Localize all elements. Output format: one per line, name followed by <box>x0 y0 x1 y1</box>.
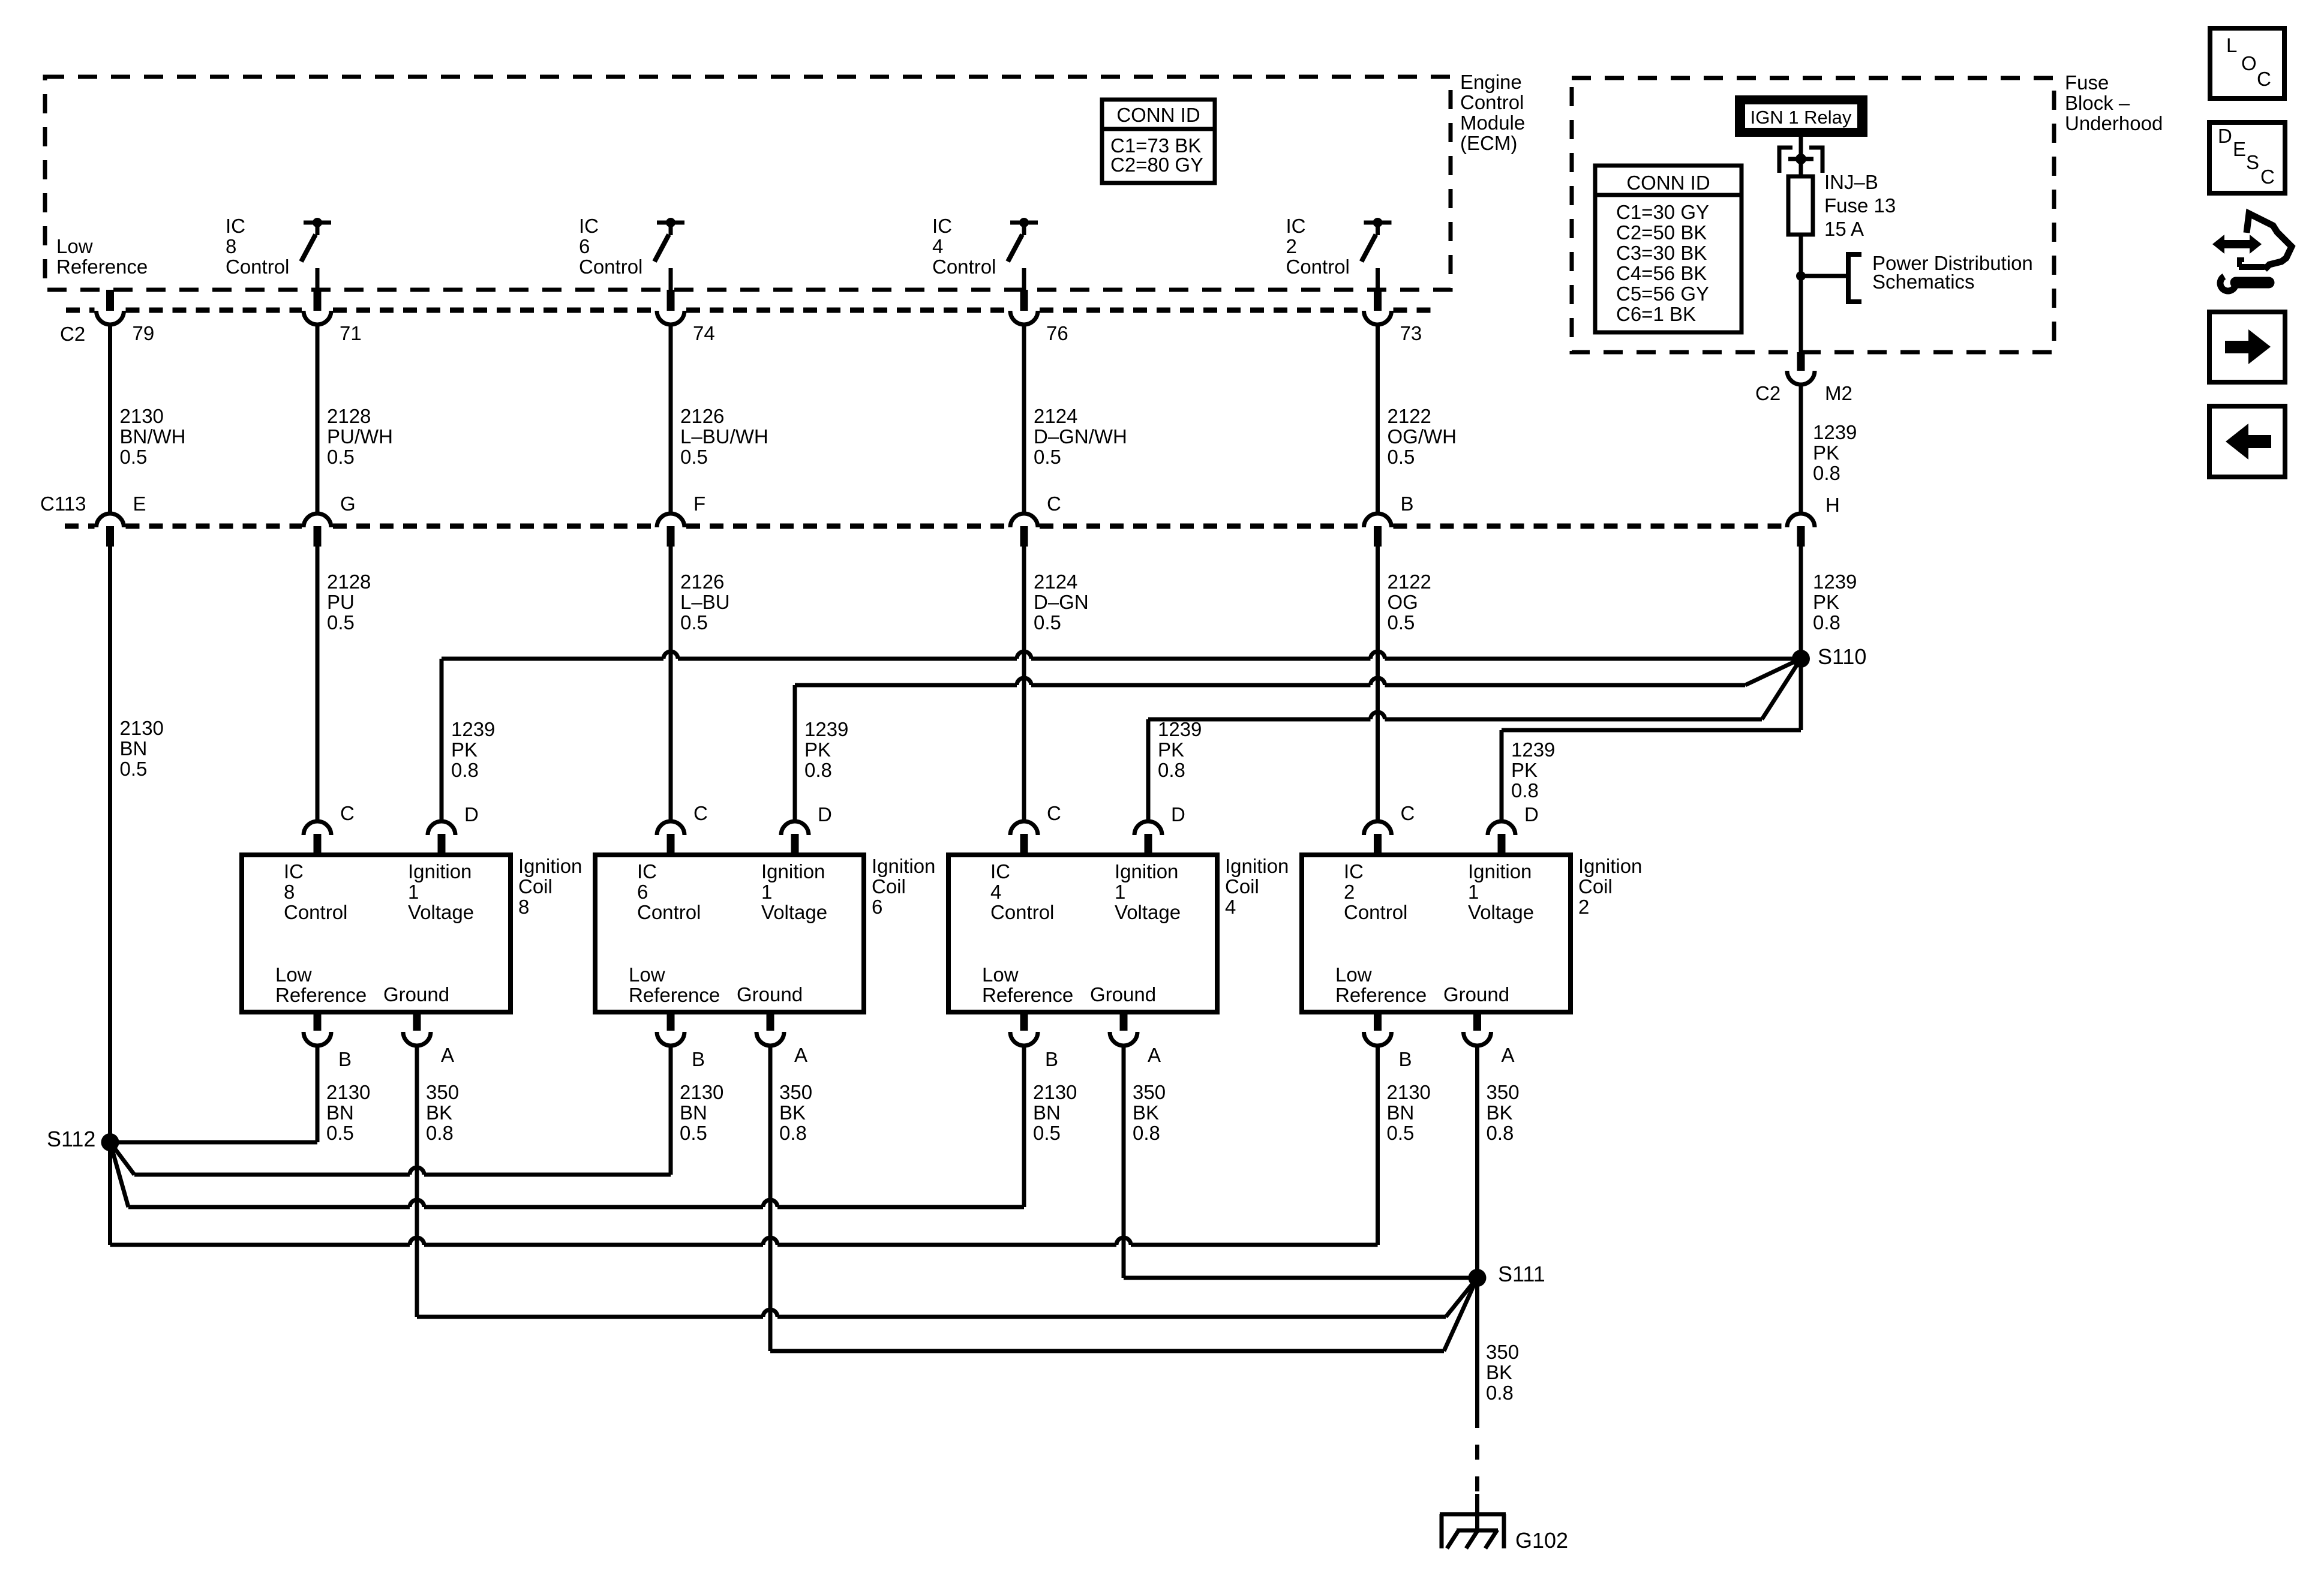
svg-text:350: 350 <box>1133 1081 1166 1103</box>
svg-text:1239: 1239 <box>1813 571 1857 593</box>
svg-text:Reference: Reference <box>1335 984 1427 1006</box>
svg-text:Ignition: Ignition <box>1225 855 1289 877</box>
svg-text:2130: 2130 <box>680 1081 723 1103</box>
switch IC 6 Control driver <box>657 221 684 225</box>
svg-text:1: 1 <box>761 881 772 903</box>
svg-text:0.5: 0.5 <box>1388 446 1415 468</box>
svg-text:1239: 1239 <box>451 718 495 740</box>
svg-text:Ignition: Ignition <box>1578 855 1642 877</box>
svg-text:2128: 2128 <box>327 571 371 593</box>
wire 350 BK coil 6 pin A to S111 <box>768 1046 773 1351</box>
svg-text:PU/WH: PU/WH <box>327 425 393 448</box>
svg-text:0.8: 0.8 <box>426 1122 454 1144</box>
svg-text:Control: Control <box>932 256 996 278</box>
svg-text:0.8: 0.8 <box>1487 1122 1514 1144</box>
svg-text:2130: 2130 <box>120 405 164 427</box>
svg-text:IC: IC <box>932 215 952 237</box>
svg-text:BN: BN <box>680 1101 707 1124</box>
svg-text:C2=50 BK: C2=50 BK <box>1616 221 1707 244</box>
wire 2130 BN coil 6 pin B to S112 <box>669 1046 673 1175</box>
svg-text:2: 2 <box>1286 235 1297 257</box>
svg-text:0.5: 0.5 <box>120 446 148 468</box>
svg-text:IC: IC <box>284 860 304 882</box>
connector ignition coil 2 pin D <box>1488 821 1515 835</box>
wire 2130 BN coil 2 pin B to S112 <box>1376 1046 1380 1245</box>
svg-text:8: 8 <box>226 235 236 257</box>
wire 2122 OG/WH from ECM pin 73 to C113 <box>1376 325 1380 514</box>
connector ECM C2 pin 76 (male stub and socket) <box>1020 290 1028 311</box>
svg-text:C: C <box>1047 802 1061 824</box>
svg-text:2122: 2122 <box>1388 405 1431 427</box>
svg-text:0.5: 0.5 <box>326 1122 354 1144</box>
connector ignition coil 4 pin D <box>1134 821 1162 835</box>
connector C113 pin H (socket and male stub) <box>1787 514 1815 527</box>
svg-text:CONN ID: CONN ID <box>1116 104 1200 126</box>
wire 350 BK coil 2 pin A through S111 <box>1475 1046 1479 1413</box>
connector ignition coil 6 pin A <box>767 1012 774 1031</box>
svg-text:OG/WH: OG/WH <box>1388 425 1457 448</box>
connector ignition coil 6 pin D <box>781 821 809 835</box>
svg-text:Low: Low <box>1335 963 1372 986</box>
ignition coil 6 box <box>595 855 864 1012</box>
svg-text:PU: PU <box>327 591 355 613</box>
svg-text:Control: Control <box>637 901 701 923</box>
svg-text:Coil: Coil <box>1578 875 1613 897</box>
svg-text:Engine: Engine <box>1460 71 1522 93</box>
svg-text:73: 73 <box>1400 322 1422 344</box>
svg-text:B: B <box>692 1048 705 1070</box>
svg-text:0.8: 0.8 <box>779 1122 807 1144</box>
svg-text:0.5: 0.5 <box>327 446 355 468</box>
svg-text:1239: 1239 <box>1158 718 1202 740</box>
svg-text:Fuse: Fuse <box>2065 71 2109 94</box>
fuse INJ-B Fuse 13 15 A symbol <box>1788 176 1813 235</box>
svg-text:Fuse 13: Fuse 13 <box>1824 194 1896 217</box>
splice S110 <box>1792 650 1810 668</box>
svg-text:Control: Control <box>226 256 289 278</box>
svg-text:PK: PK <box>1813 591 1839 613</box>
fuse block CONN ID table box <box>1595 166 1742 332</box>
svg-text:C2: C2 <box>60 323 85 345</box>
connector C113 pin G (socket and male stub) <box>304 514 331 527</box>
ignition coil 4 box <box>948 855 1217 1012</box>
svg-text:350: 350 <box>426 1081 459 1103</box>
svg-text:Coil: Coil <box>872 875 906 897</box>
svg-text:Control: Control <box>1344 901 1407 923</box>
svg-text:0.8: 0.8 <box>451 759 479 781</box>
svg-text:G102: G102 <box>1515 1528 1568 1553</box>
wire 2126 L–BU from C113 pin F to ignition coil pin C <box>669 547 673 821</box>
svg-text:BN: BN <box>120 737 148 760</box>
icon LOC box <box>2210 28 2284 98</box>
svg-text:Ignition: Ignition <box>1115 860 1178 882</box>
svg-text:350: 350 <box>1486 1341 1519 1363</box>
svg-text:C6=1 BK: C6=1 BK <box>1616 303 1696 325</box>
svg-text:Ground: Ground <box>1443 983 1509 1005</box>
svg-text:C1=30 GY: C1=30 GY <box>1616 201 1709 223</box>
svg-text:BK: BK <box>1133 1101 1159 1124</box>
connector ignition coil 2 pin B <box>1374 1012 1382 1031</box>
svg-text:PK: PK <box>1511 759 1538 781</box>
wire 2130 BN/WH from ECM pin 79 to C113 <box>108 325 112 514</box>
svg-text:79: 79 <box>133 322 155 344</box>
svg-text:0.5: 0.5 <box>680 1122 707 1144</box>
svg-text:4: 4 <box>932 235 943 257</box>
connector ECM C2 pin 79 (male stub and socket) <box>106 290 114 311</box>
svg-text:Voltage: Voltage <box>761 901 827 923</box>
svg-text:2126: 2126 <box>680 405 724 427</box>
connector ECM C2 pin 71 (male stub and socket) <box>314 290 322 311</box>
svg-text:BK: BK <box>1487 1101 1513 1124</box>
svg-text:8: 8 <box>284 881 295 903</box>
connector C113 pin E (socket and male stub) <box>97 514 124 527</box>
svg-text:74: 74 <box>693 322 715 344</box>
svg-text:2130: 2130 <box>1387 1081 1431 1103</box>
connector ignition coil 8 pin C <box>304 821 331 835</box>
power distribution off-page bracket <box>1848 254 1861 302</box>
svg-text:B: B <box>1399 1048 1412 1070</box>
connector ignition coil 4 pin B <box>1020 1012 1028 1031</box>
icon previous arrow box <box>2209 406 2285 477</box>
wire 2130 BN coil 4 pin B to S112 <box>1022 1046 1026 1207</box>
wire 350 BK dashed continuation to G102 <box>1475 1413 1479 1497</box>
svg-text:C: C <box>2257 68 2271 90</box>
wire tap to power distribution bracket <box>1801 274 1848 278</box>
wire 2128 PU/WH from ECM pin 71 to C113 <box>316 325 320 514</box>
wire 2124 D–GN from C113 pin C to ignition coil pin C <box>1022 547 1026 821</box>
svg-text:71: 71 <box>340 322 362 344</box>
svg-text:IC: IC <box>1344 860 1364 882</box>
svg-text:A: A <box>441 1044 454 1066</box>
svg-text:0.5: 0.5 <box>680 611 708 634</box>
svg-text:BN: BN <box>326 1101 354 1124</box>
connector ECM C2 pin 73 (male stub and socket) <box>1374 290 1382 311</box>
svg-text:0.5: 0.5 <box>327 611 355 634</box>
wire 2126 L–BU/WH from ECM pin 74 to C113 <box>669 325 673 514</box>
svg-text:Ground: Ground <box>383 983 449 1005</box>
svg-text:S111: S111 <box>1498 1262 1545 1286</box>
svg-text:E: E <box>2233 138 2246 160</box>
Fuse Block Underhood dashed box <box>1572 78 2054 352</box>
svg-text:C: C <box>693 802 708 824</box>
svg-text:Low: Low <box>629 963 665 986</box>
svg-text:Reference: Reference <box>629 984 720 1006</box>
svg-text:0.5: 0.5 <box>1034 446 1061 468</box>
svg-text:L: L <box>2226 34 2237 56</box>
icon schematic navigation (car outline with arrow and wrench) <box>2212 235 2262 254</box>
svg-text:Reference: Reference <box>275 984 367 1006</box>
svg-text:IC: IC <box>1286 215 1306 237</box>
svg-text:S: S <box>2246 151 2259 173</box>
svg-text:0.5: 0.5 <box>1034 611 1061 634</box>
connector C113 pin B (socket and male stub) <box>1364 514 1392 527</box>
svg-text:S110: S110 <box>1818 644 1866 669</box>
svg-text:0.8: 0.8 <box>1511 779 1539 801</box>
svg-text:Control: Control <box>990 901 1054 923</box>
svg-text:D: D <box>464 803 479 825</box>
svg-text:C: C <box>2260 166 2275 188</box>
svg-text:D–GN: D–GN <box>1034 591 1089 613</box>
svg-text:6: 6 <box>637 881 648 903</box>
switch IC 2 Control driver <box>1364 221 1392 225</box>
svg-text:Low: Low <box>56 235 93 257</box>
svg-text:C4=56 BK: C4=56 BK <box>1616 262 1707 284</box>
svg-text:Module: Module <box>1460 112 1525 134</box>
svg-text:0.8: 0.8 <box>1133 1122 1160 1144</box>
connector ignition coil 6 pin B <box>667 1012 675 1031</box>
svg-text:2130: 2130 <box>1033 1081 1077 1103</box>
svg-text:C2: C2 <box>1755 382 1780 404</box>
connector ignition coil 2 pin A <box>1473 1012 1481 1031</box>
wire from fuse to fuse block bottom <box>1799 235 1803 352</box>
connector ignition coil 8 pin B <box>314 1012 322 1031</box>
svg-text:15 A: 15 A <box>1824 218 1864 240</box>
svg-text:H: H <box>1825 494 1840 516</box>
svg-text:0.8: 0.8 <box>1486 1382 1514 1404</box>
svg-text:1239: 1239 <box>804 718 848 740</box>
svg-text:1: 1 <box>408 881 419 903</box>
wire 350 BK coil 8 pin A to S111 <box>415 1046 419 1317</box>
wire 2124 D–GN/WH from ECM pin 76 to C113 <box>1022 325 1026 514</box>
svg-text:350: 350 <box>1487 1081 1520 1103</box>
svg-text:Low: Low <box>275 963 312 986</box>
svg-text:C113: C113 <box>40 493 86 515</box>
svg-text:Ignition: Ignition <box>761 860 825 882</box>
svg-text:Reference: Reference <box>982 984 1073 1006</box>
ground symbol G102 <box>1440 1512 1506 1517</box>
svg-text:E: E <box>133 493 146 515</box>
svg-text:A: A <box>1502 1044 1515 1066</box>
svg-text:2130: 2130 <box>120 717 164 739</box>
svg-text:Underhood: Underhood <box>2065 112 2163 134</box>
svg-text:S112: S112 <box>47 1127 95 1151</box>
svg-text:PK: PK <box>1158 739 1184 761</box>
svg-text:Control: Control <box>284 901 347 923</box>
svg-text:1: 1 <box>1115 881 1125 903</box>
ECM CONN ID header divider <box>1102 127 1215 131</box>
ECM CONN ID table box <box>1102 100 1215 183</box>
svg-text:A: A <box>794 1044 807 1066</box>
svg-text:PK: PK <box>1813 442 1839 464</box>
svg-text:BN: BN <box>1033 1101 1061 1124</box>
svg-text:2: 2 <box>1578 896 1589 918</box>
svg-text:Voltage: Voltage <box>408 901 474 923</box>
connector ignition coil 8 pin D <box>428 821 455 835</box>
relay IGN 1 Relay box <box>1739 100 1864 133</box>
svg-text:BK: BK <box>1486 1361 1512 1383</box>
relay terminal clip right <box>1809 148 1822 173</box>
icon next arrow box <box>2209 312 2285 382</box>
wire 1239 PK from fuse block to C113 pin H <box>1799 385 1803 514</box>
svg-text:Ignition: Ignition <box>872 855 935 877</box>
svg-text:Ignition: Ignition <box>1468 860 1532 882</box>
svg-text:0.8: 0.8 <box>1158 759 1185 781</box>
svg-text:2128: 2128 <box>327 405 371 427</box>
svg-text:Low: Low <box>982 963 1019 986</box>
svg-text:0.5: 0.5 <box>120 758 148 780</box>
svg-text:F: F <box>693 493 705 515</box>
svg-text:0.8: 0.8 <box>1813 611 1840 634</box>
ignition coil 8 box <box>242 855 511 1012</box>
svg-text:BK: BK <box>779 1101 806 1124</box>
svg-text:M2: M2 <box>1825 382 1852 404</box>
svg-text:G: G <box>340 493 356 515</box>
svg-text:IC: IC <box>637 860 657 882</box>
svg-text:0.8: 0.8 <box>804 759 832 781</box>
node tap to power distribution <box>1796 271 1806 281</box>
svg-text:L–BU/WH: L–BU/WH <box>680 425 768 448</box>
svg-text:OG: OG <box>1388 591 1418 613</box>
svg-text:D–GN/WH: D–GN/WH <box>1034 425 1127 448</box>
svg-text:6: 6 <box>579 235 590 257</box>
svg-text:0.5: 0.5 <box>1387 1122 1415 1144</box>
svg-text:0.8: 0.8 <box>1813 462 1840 484</box>
wire 1239 PK from S110 down to coil 2 pin D <box>1799 659 1803 730</box>
svg-text:8: 8 <box>518 896 529 918</box>
connector ignition coil 2 pin C <box>1364 821 1392 835</box>
svg-text:76: 76 <box>1046 322 1068 344</box>
svg-text:Ground: Ground <box>737 983 803 1005</box>
svg-text:B: B <box>338 1048 352 1070</box>
ignition coil 2 box <box>1302 855 1571 1012</box>
svg-text:Control: Control <box>579 256 642 278</box>
svg-text:BN: BN <box>1387 1101 1415 1124</box>
svg-text:D: D <box>2218 125 2232 147</box>
svg-text:1239: 1239 <box>1511 739 1555 761</box>
switch IC 8 Control driver <box>304 221 331 225</box>
svg-text:2130: 2130 <box>326 1081 370 1103</box>
wire from IGN 1 relay to fuse <box>1799 137 1803 176</box>
svg-text:Control: Control <box>1286 256 1350 278</box>
wire 1239 PK from coil 6 pin D to S110 <box>793 685 797 821</box>
svg-text:A: A <box>1148 1044 1161 1066</box>
svg-text:350: 350 <box>779 1081 812 1103</box>
svg-text:L–BU: L–BU <box>680 591 730 613</box>
relay terminal node <box>1795 154 1806 164</box>
connector ignition coil 4 pin C <box>1010 821 1038 835</box>
svg-text:C: C <box>1401 802 1415 824</box>
svg-text:Reference: Reference <box>56 256 148 278</box>
svg-text:IGN 1 Relay: IGN 1 Relay <box>1750 107 1852 128</box>
connector row C113 dotted line <box>65 524 95 529</box>
splice S112 <box>101 1133 119 1151</box>
svg-text:Control: Control <box>1460 91 1524 113</box>
svg-text:IC: IC <box>579 215 599 237</box>
svg-text:Voltage: Voltage <box>1468 901 1534 923</box>
svg-text:6: 6 <box>872 896 882 918</box>
svg-text:0.5: 0.5 <box>1033 1122 1061 1144</box>
svg-text:BN/WH: BN/WH <box>120 425 186 448</box>
svg-text:2122: 2122 <box>1388 571 1431 593</box>
wire 1239 PK from C113 pin H to splice S110 <box>1799 547 1803 659</box>
svg-text:C3=30 BK: C3=30 BK <box>1616 242 1707 264</box>
wire 2130 BN from C113 pin E down to S112 <box>108 547 112 1142</box>
wire 2122 OG from C113 pin B to ignition coil pin C <box>1376 547 1380 821</box>
svg-text:D: D <box>818 803 832 825</box>
ECM module dashed box <box>45 77 1451 290</box>
svg-text:O: O <box>2241 52 2257 74</box>
svg-text:CONN ID: CONN ID <box>1626 172 1710 194</box>
svg-text:C: C <box>340 802 355 824</box>
svg-text:C: C <box>1047 493 1061 515</box>
switch IC 4 Control driver <box>1010 221 1038 225</box>
wire 1239 PK from coil 4 pin D to S110 <box>1146 719 1151 821</box>
wire 1239 PK from coil 8 pin D to S110 <box>440 659 444 821</box>
svg-text:BK: BK <box>426 1101 452 1124</box>
connector ignition coil 6 pin C <box>657 821 684 835</box>
svg-text:IC: IC <box>990 860 1010 882</box>
svg-text:D: D <box>1524 803 1539 825</box>
svg-text:Block –: Block – <box>2065 92 2130 114</box>
svg-text:2124: 2124 <box>1034 571 1077 593</box>
wire 2128 PU from C113 pin G to ignition coil pin C <box>316 547 320 821</box>
svg-text:2124: 2124 <box>1034 405 1077 427</box>
svg-text:INJ–B: INJ–B <box>1824 171 1878 193</box>
svg-text:Ignition: Ignition <box>518 855 582 877</box>
svg-text:C5=56 GY: C5=56 GY <box>1616 283 1709 305</box>
svg-text:4: 4 <box>1225 896 1236 918</box>
svg-text:Schematics: Schematics <box>1872 271 1975 293</box>
svg-text:PK: PK <box>451 739 478 761</box>
svg-text:D: D <box>1171 803 1185 825</box>
svg-text:B: B <box>1401 493 1414 515</box>
connector C113 pin F (socket and male stub) <box>657 514 684 527</box>
connector ECM C2 pin 74 (male stub and socket) <box>667 290 675 311</box>
svg-text:B: B <box>1045 1048 1058 1070</box>
svg-text:Coil: Coil <box>1225 875 1259 897</box>
svg-text:2126: 2126 <box>680 571 724 593</box>
connector C2 M2 (fuse block output, male stub and socket) <box>1797 352 1805 371</box>
svg-text:IC: IC <box>226 215 245 237</box>
connector ignition coil 8 pin A <box>413 1012 421 1031</box>
svg-text:2: 2 <box>1344 881 1355 903</box>
connector C113 pin C (socket and male stub) <box>1010 514 1038 527</box>
fuse block CONN ID header divider <box>1595 193 1742 197</box>
svg-text:Ignition: Ignition <box>408 860 472 882</box>
svg-text:4: 4 <box>990 881 1001 903</box>
svg-text:0.5: 0.5 <box>1388 611 1415 634</box>
svg-text:PK: PK <box>804 739 831 761</box>
icon DESC box <box>2209 122 2285 193</box>
wire 350 BK coil 4 pin A to S111 <box>1122 1046 1126 1278</box>
svg-text:0.5: 0.5 <box>680 446 708 468</box>
svg-text:Ground: Ground <box>1090 983 1156 1005</box>
relay terminal clip left <box>1779 148 1792 173</box>
svg-text:1239: 1239 <box>1813 421 1857 443</box>
wire 2130 BN coil 8 pin B to S112 <box>316 1046 320 1142</box>
connector ignition coil 4 pin A <box>1120 1012 1128 1031</box>
svg-text:Voltage: Voltage <box>1115 901 1181 923</box>
connector row C2 dotted line <box>66 308 95 313</box>
splice S111 <box>1469 1269 1487 1287</box>
svg-text:(ECM): (ECM) <box>1460 132 1517 154</box>
svg-text:C2=80 GY: C2=80 GY <box>1110 154 1203 176</box>
svg-text:1: 1 <box>1468 881 1479 903</box>
svg-text:Coil: Coil <box>518 875 553 897</box>
